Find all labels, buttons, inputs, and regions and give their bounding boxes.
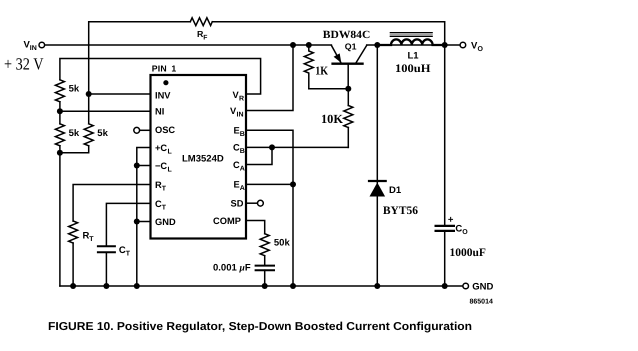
junction EA [290, 181, 296, 187]
wire VR loop over chip to 5k string [60, 59, 261, 95]
terminal OSC circle [134, 127, 140, 133]
inductor core lines [390, 32, 433, 37]
label CT [119, 245, 131, 258]
wire CA tie to CB [246, 147, 272, 164]
capacitor 0.001uF [256, 266, 274, 271]
wire 50k to cap [264, 256, 266, 266]
svg-text:LM3524D: LM3524D [182, 154, 224, 165]
svg-text:IN: IN [237, 111, 244, 118]
wire VIN pin riser [246, 45, 293, 111]
junction CT ground [103, 283, 109, 289]
junction D1 ground [374, 283, 380, 289]
junction EB chain ground [290, 283, 296, 289]
svg-text:Q1: Q1 [345, 41, 357, 51]
svg-text:NI: NI [155, 107, 164, 117]
svg-text:D1: D1 [389, 185, 402, 196]
svg-text:−C: −C [155, 161, 167, 171]
wire D1 branch [376, 45, 378, 183]
wire RT to ground [72, 243, 74, 286]
wire 1K bottom to base node [309, 88, 349, 90]
svg-text:FIGURE 10. Positive Regulator,: FIGURE 10. Positive Regulator, Step-Down… [48, 321, 472, 333]
svg-text:A: A [240, 165, 245, 172]
svg-text:B: B [240, 148, 245, 155]
svg-text:COMP: COMP [213, 216, 241, 226]
capacitor CT [98, 246, 115, 252]
label VO [471, 40, 484, 53]
svg-text:L: L [168, 148, 173, 155]
resistor RT [69, 221, 78, 243]
terminal VIN circle [39, 42, 45, 48]
svg-text:5k: 5k [97, 128, 108, 139]
svg-text:T: T [89, 236, 94, 243]
wire 5k pair bottom join [60, 146, 89, 153]
resistor 10K [344, 106, 353, 128]
wire ground drop from divider [59, 153, 61, 286]
wire cap to ground [264, 270, 266, 286]
wire NI pin [60, 110, 151, 112]
svg-text:50k: 50k [274, 238, 291, 249]
svg-text:GND: GND [155, 217, 176, 227]
junction divider bottom [57, 150, 63, 156]
junction -CL [134, 163, 140, 169]
svg-text:A: A [240, 185, 245, 192]
wire SD stub [246, 202, 257, 204]
svg-text:+ 32 V: + 32 V [4, 55, 44, 74]
terminal GND circle [463, 283, 469, 289]
resistor 5k lower-left [55, 124, 64, 146]
svg-text:SD: SD [231, 198, 244, 208]
terminal SD circle [258, 200, 264, 206]
terminal VO circle [460, 42, 466, 48]
svg-text:E: E [234, 126, 240, 136]
wire VIN rail [45, 44, 331, 46]
wire +CL chain to ground [137, 148, 151, 287]
wire base node to 10K [347, 89, 349, 106]
svg-text:1000uF: 1000uF [450, 247, 486, 259]
wire 10K to CB line [347, 128, 349, 148]
transistor Q1 [331, 45, 366, 88]
svg-text:B: B [240, 131, 245, 138]
junction VIN pin rail [290, 42, 296, 48]
svg-text:865014: 865014 [470, 299, 493, 306]
wire EB down to EA and ground [246, 130, 293, 286]
svg-text:OSC: OSC [155, 125, 175, 135]
resistor 5k top [55, 80, 64, 102]
inductor L1 [379, 39, 443, 45]
junction INV node [86, 91, 92, 97]
svg-text:IN: IN [30, 45, 37, 52]
wire -CL pin [137, 165, 151, 167]
label VIN [24, 40, 37, 53]
svg-text:E: E [234, 180, 240, 190]
wire GND pin [137, 221, 151, 223]
svg-text:L1: L1 [408, 51, 420, 62]
wire output to CO [444, 45, 446, 226]
svg-text:T: T [126, 251, 131, 258]
wire D1 to ground [376, 195, 378, 286]
svg-text:R: R [239, 95, 244, 102]
diode D1 [369, 181, 386, 197]
svg-text:INV: INV [155, 90, 171, 100]
svg-text:L: L [168, 166, 173, 173]
wire COMP to 50k [246, 221, 265, 234]
wire top feedback vertical (RF to INV node) [89, 22, 191, 124]
svg-text:100uH: 100uH [395, 63, 431, 75]
resistor 5k lower-right [84, 124, 93, 146]
op-amp chip LM3524D outline [151, 75, 247, 239]
svg-text:1K: 1K [315, 63, 328, 77]
svg-text:O: O [478, 46, 484, 53]
wire EA pin [246, 183, 293, 185]
label CO [455, 224, 468, 237]
resistor 50k [260, 234, 269, 256]
wire output rail [367, 44, 460, 46]
svg-text:T: T [162, 204, 167, 211]
wire CT to ground [105, 252, 107, 286]
wire CT pin to capacitor [106, 203, 150, 246]
wire OSC stub [140, 129, 151, 131]
wire CO to ground [444, 231, 446, 286]
junction CO ground [442, 283, 448, 289]
wire INV pin [89, 93, 151, 95]
junction NI node [57, 108, 63, 114]
junction comp cap ground [262, 283, 268, 289]
junction base node [345, 86, 351, 92]
wire 5k to NI node [59, 102, 61, 124]
svg-text:BYT56: BYT56 [383, 205, 418, 217]
junction chip ground chain [134, 283, 140, 289]
svg-text:5k: 5k [69, 128, 80, 139]
junction output CO [442, 42, 448, 48]
svg-text:5k: 5k [69, 84, 80, 95]
wire ground rail [60, 285, 463, 287]
pin 1 marker dot [163, 80, 168, 85]
svg-text:F: F [203, 34, 207, 41]
resistor RF [190, 18, 212, 26]
wire CB to 10K [246, 146, 348, 148]
svg-text:BDW84C: BDW84C [323, 29, 371, 41]
label RT [83, 231, 95, 244]
label RF [197, 29, 207, 42]
svg-text:0.001 µF: 0.001 µF [213, 263, 251, 274]
capacitor CO [436, 226, 454, 231]
chip pin labels left [155, 90, 176, 227]
svg-text:T: T [162, 185, 167, 192]
svg-text:GND: GND [472, 282, 493, 293]
svg-text:O: O [462, 229, 468, 236]
svg-text:+: + [448, 215, 454, 226]
junction RT ground [70, 283, 76, 289]
resistor 1K [304, 45, 313, 89]
svg-text:PIN 1: PIN 1 [152, 64, 177, 74]
svg-text:10K: 10K [321, 112, 343, 126]
chip pin labels right [213, 90, 245, 226]
junction 1K rail [306, 42, 312, 48]
wire RT pin to resistor [73, 185, 150, 222]
junction D1 top [374, 42, 380, 48]
wire top rail to output corner [212, 22, 444, 45]
junction CB tie [269, 144, 275, 150]
junction GND pin [134, 219, 140, 225]
svg-text:+C: +C [155, 143, 167, 153]
